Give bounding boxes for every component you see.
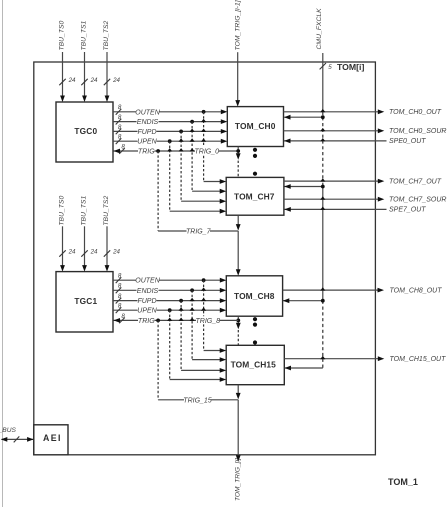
svg-text:8: 8 [118, 273, 122, 280]
node TRIG drop junction (TGC1) [156, 319, 160, 323]
wire CMU_FXCLK branch into TOM_CH7 [284, 184, 323, 189]
hop CMU_FXCLK over TOM_CH7_SOUR [320, 196, 325, 199]
bus slash 8 on UPEN (TGC1) [116, 303, 122, 314]
wire TBU_TS2 to TGC0 [105, 52, 110, 102]
hop ENDIS drop over FUPD [190, 129, 195, 132]
svg-text:8: 8 [118, 104, 122, 111]
ellipsis channels CH9..CH14 [253, 317, 257, 345]
bus slash 24 on TBU_TS1 (TGC0) [81, 77, 98, 85]
hop UPEN drop over TRIG [167, 148, 172, 151]
wire UPEN drop to TOM_CH7 [170, 141, 227, 213]
svg-text:TGC1: TGC1 [74, 296, 97, 306]
bus slash 8 on FUPD (TGC1) [116, 293, 122, 304]
block TOM_CH0 [227, 107, 283, 147]
wire FUPD (TGC0 to TOM_CH0) [113, 129, 227, 134]
label UPEN (TGC1) [137, 306, 157, 315]
wire FUPD (TGC1 to TOM_CH8) [113, 298, 226, 303]
hop OUTEN drop over FUPD [201, 129, 206, 132]
wire TOM_CH7_SOUR [284, 197, 384, 202]
label TRIG (TGC0) [138, 147, 155, 156]
svg-text:24: 24 [112, 77, 120, 84]
svg-text:TOM[i]: TOM[i] [337, 62, 364, 72]
svg-text:5: 5 [328, 64, 332, 71]
page edge line [2, 0, 4, 507]
svg-text:TOM_CH0_OUT: TOM_CH0_OUT [389, 109, 442, 116]
wire TRIG_7 return (TOM_CH7 trig down to TGC0 TRIG) [158, 151, 238, 231]
svg-text:8: 8 [118, 303, 122, 310]
wire FUPD drop to TOM_CH15 [181, 301, 226, 373]
wire ENDIS drop to TOM_CH7 [192, 122, 226, 194]
wire TOM_CH15_OUT [284, 356, 384, 361]
svg-text:TBU_TS1: TBU_TS1 [80, 196, 87, 226]
bus slash 24 on TBU_TS2 (TGC1) [104, 249, 121, 257]
svg-text:8: 8 [118, 124, 122, 131]
svg-text:TOM_CH8: TOM_CH8 [234, 291, 275, 301]
wire OUTEN drop to TOM_CH7 [204, 112, 227, 184]
wire trig chain TOM_CH8 bottom to TOM_CH15 [236, 316, 241, 345]
node CMU_FXCLK junction at TOM_CH7 [321, 185, 325, 189]
svg-text:TRIG_0: TRIG_0 [195, 149, 220, 156]
label TRIG_8 [196, 316, 221, 325]
wire CMU_FXCLK branch into TOM_CH0 [284, 115, 323, 120]
svg-text:ENDIS: ENDIS [137, 288, 159, 295]
node OUTEN drop junction (TGC1) [202, 278, 206, 282]
bus slash 5 on CMU_FXCLK [320, 63, 333, 71]
svg-text:ENDIS: ENDIS [137, 119, 159, 126]
bus slash 8 on TRIG (TGC1) [119, 313, 125, 324]
hop OUTEN drop over ENDIS (TGC1) [201, 287, 206, 290]
ellipsis channels CH1..CH6 [253, 148, 257, 176]
bus slash 8 on TRIG (TGC0) [119, 143, 125, 154]
bus slash 8 on OUTEN (TGC1) [116, 273, 122, 284]
wire TBU_TS1 to TGC1 [82, 226, 87, 271]
svg-text:TOM_TRIG_[i-1]: TOM_TRIG_[i-1] [235, 0, 242, 51]
hop OUTEN drop over FUPD (TGC1) [201, 298, 206, 301]
svg-text:8: 8 [118, 114, 122, 121]
svg-text:TOM_CH7_OUT: TOM_CH7_OUT [389, 178, 442, 185]
svg-text:TRIG: TRIG [138, 149, 155, 156]
svg-text:FUPD: FUPD [137, 129, 156, 136]
svg-text:TOM_CH7: TOM_CH7 [234, 191, 275, 201]
svg-text:24: 24 [90, 77, 98, 84]
svg-text:24: 24 [68, 249, 76, 256]
bus slash 24 on TBU_TS1 (TGC1) [81, 249, 98, 257]
wire TBU_TS0 to TGC0 [60, 52, 65, 102]
svg-text:8: 8 [118, 134, 122, 141]
wire trig chain TOM_CH0 bottom to TOM_CH7 [236, 147, 241, 178]
wire FUPD drop to TOM_CH7 [181, 131, 226, 203]
hop ENDIS drop over FUPD (TGC1) [190, 298, 195, 301]
wire TBU_TS1 to TGC0 [82, 52, 87, 102]
node OUTEN drop junction (TGC0) [202, 110, 206, 114]
svg-text:24: 24 [68, 77, 76, 84]
block TOM_CH15 [226, 345, 284, 384]
wire OUTEN (TGC0 to TOM_CH0) [113, 109, 227, 114]
hop CMU_FXCLK over SPE7_OUT [320, 207, 325, 210]
hop UPEN drop over TRIG (TGC1) [167, 318, 172, 321]
label FUPD (TGC1) [137, 296, 156, 305]
svg-text:8: 8 [118, 283, 122, 290]
node TRIG_0 junction [236, 149, 240, 153]
label TRIG_0 [195, 147, 220, 156]
svg-text:TRIG_7: TRIG_7 [186, 229, 212, 236]
wire trig chain TOM_CH7 bottom to TOM_CH8 [236, 215, 241, 276]
svg-text:UPEN: UPEN [137, 308, 157, 315]
wire TOM_CH0_SOUR [284, 128, 385, 133]
label TRIG (TGC1) [138, 316, 155, 325]
svg-text:TBU_TS0: TBU_TS0 [58, 196, 65, 226]
node TRIG drop junction (TGC0) [156, 149, 160, 153]
wire TRIG (TGC0, arrow into TGC0, runs to trig chain node) [114, 149, 239, 154]
hop OUTEN drop over UPEN [201, 138, 206, 141]
svg-text:FUPD: FUPD [137, 298, 156, 305]
hop FUPD drop over TRIG [179, 148, 184, 151]
hop CMU_FXCLK over SPE0_OUT [320, 138, 325, 141]
hop ENDIS drop over UPEN (TGC1) [190, 307, 195, 310]
block TOM_CH8 [226, 276, 282, 316]
svg-text:TOM_CH15: TOM_CH15 [231, 359, 277, 369]
node UPEN drop junction (TGC0) [168, 139, 172, 143]
node FUPD drop junction (TGC1) [179, 299, 183, 303]
block TOM_CH7 [226, 177, 284, 215]
wire OUTEN (TGC1 to TOM_CH8) [113, 278, 226, 283]
label UPEN (TGC0) [137, 137, 157, 146]
bus slash 24 on TBU_TS0 (TGC1) [59, 249, 76, 257]
bus slash 8 on OUTEN (TGC0) [116, 104, 122, 115]
svg-text:TOM_TRIG_[i]: TOM_TRIG_[i] [234, 458, 241, 501]
svg-text:TOM_1: TOM_1 [388, 477, 418, 487]
block TGC0 [56, 102, 113, 162]
wire UPEN drop to TOM_CH15 [170, 310, 227, 382]
node ENDIS drop junction (TGC0) [190, 120, 194, 124]
svg-text:TBU_TS2: TBU_TS2 [103, 196, 110, 226]
svg-text:TRIG_8: TRIG_8 [196, 318, 221, 325]
node FUPD drop junction (TGC0) [179, 130, 183, 134]
block AEI [34, 425, 68, 455]
svg-text:TOM_CH0_SOUR: TOM_CH0_SOUR [389, 128, 446, 135]
node CMU_FXCLK junction at TOM_CH8 [321, 299, 325, 303]
svg-text:UPEN: UPEN [137, 139, 157, 146]
bus slash 8 on UPEN (TGC0) [116, 134, 122, 145]
outer module box TOM[i] [34, 62, 376, 455]
block TGC1 [56, 272, 113, 332]
hop ENDIS drop over TRIG [190, 148, 195, 151]
label OUTEN (TGC0) [135, 108, 160, 117]
svg-text:TOM_CH0: TOM_CH0 [235, 121, 276, 131]
hop FUPD drop over UPEN [179, 138, 184, 141]
bus slash 24 on TBU_TS0 (TGC0) [59, 77, 76, 85]
hop ENDIS drop over UPEN [190, 138, 195, 141]
wire ENDIS (TGC1 to TOM_CH8) [113, 288, 226, 293]
bus slash 24 on TBU_TS2 (TGC0) [104, 77, 121, 85]
svg-text:SPE7_OUT: SPE7_OUT [389, 207, 426, 214]
svg-text:OUTEN: OUTEN [135, 109, 160, 116]
svg-text:TRIG: TRIG [138, 318, 155, 325]
wire TBU_TS2 to TGC1 [105, 226, 110, 271]
wire TOM_TRIG_[i] output (TOM_CH15 bottom, out of module) [236, 385, 241, 462]
wire TRIG_15 return (TOM_CH15 trig down to TGC1 TRIG) [158, 320, 238, 399]
hop OUTEN drop over ENDIS [201, 119, 206, 122]
wire CMU_FXCLK branch into TOM_CH15 [285, 366, 323, 371]
wire UPEN (TGC1 to TOM_CH8) [113, 308, 226, 313]
wire TBU_TS0 to TGC1 [60, 226, 65, 271]
svg-text:TRIG_15: TRIG_15 [183, 397, 212, 404]
hop FUPD drop over UPEN (TGC1) [179, 307, 184, 310]
svg-text:TOM_CH15_OUT: TOM_CH15_OUT [390, 356, 447, 363]
wire CMU_FXCLK vertical [322, 53, 324, 368]
hop CMU_FXCLK over TOM_CH7_OUT [320, 178, 325, 181]
svg-text:TOM_CH7_SOUR: TOM_CH7_SOUR [389, 197, 446, 204]
svg-text:8: 8 [121, 143, 125, 150]
svg-text:AEI_BUS: AEI_BUS [0, 427, 16, 434]
label OUTEN (TGC1) [135, 276, 160, 285]
label TRIG_7 [186, 227, 212, 236]
label FUPD (TGC0) [137, 127, 156, 136]
node CMU_FXCLK junction at TOM_CH0 [321, 115, 325, 119]
wire TOM_CH0_OUT [284, 109, 385, 114]
bus slash 8 on ENDIS (TGC0) [116, 114, 122, 125]
svg-text:TOM_CH8_OUT: TOM_CH8_OUT [390, 287, 443, 294]
wire TOM_TRIG_[i-1] input [235, 52, 240, 106]
bus slash 8 on FUPD (TGC0) [116, 124, 122, 135]
hop ENDIS drop over TRIG (TGC1) [190, 318, 195, 321]
wire TRIG (TGC1, arrow into TGC1, runs to trig chain node) [114, 318, 239, 323]
hop OUTEN drop over UPEN (TGC1) [201, 307, 206, 310]
hop CMU_FXCLK over TOM_CH8_OUT [320, 287, 325, 290]
svg-text:8: 8 [118, 293, 122, 300]
label TRIG_15 [183, 396, 212, 405]
svg-text:24: 24 [90, 249, 98, 256]
svg-text:8: 8 [121, 313, 125, 320]
svg-text:OUTEN: OUTEN [135, 278, 160, 285]
svg-text:TBU_TS0: TBU_TS0 [58, 20, 65, 50]
svg-text:SPE0_OUT: SPE0_OUT [389, 138, 426, 145]
wire SPE7_OUT into TOM_CH7 [284, 207, 386, 212]
hop FUPD drop over TRIG (TGC1) [179, 318, 184, 321]
node ENDIS drop junction (TGC1) [190, 288, 194, 292]
svg-text:24: 24 [112, 249, 120, 256]
wire TOM_CH7_OUT [284, 179, 384, 184]
wire OUTEN drop to TOM_CH15 [204, 280, 227, 353]
wire ENDIS (TGC0 to TOM_CH0) [113, 119, 227, 124]
wire TOM_CH8_OUT [283, 288, 384, 293]
wire SPE0_OUT into TOM_CH0 [284, 139, 387, 144]
wire CMU_FXCLK branch into TOM_CH8 [283, 298, 323, 303]
bus slash 8 on ENDIS (TGC1) [116, 283, 122, 294]
svg-text:TBU_TS1: TBU_TS1 [80, 20, 87, 50]
label ENDIS (TGC0) [137, 117, 159, 126]
svg-text:AEI: AEI [43, 433, 62, 443]
wire UPEN (TGC0 to TOM_CH0) [113, 139, 227, 144]
hop CMU_FXCLK over TOM_CH0_OUT [320, 109, 325, 112]
svg-text:TGC0: TGC0 [74, 126, 97, 136]
label ENDIS (TGC1) [137, 286, 159, 295]
node TRIG_8 junction [236, 319, 240, 323]
wire AEI_BUS double arrow [1, 436, 34, 442]
hop CMU_FXCLK over TOM_CH15_OUT [320, 356, 325, 359]
hop CMU_FXCLK over TOM_CH0_SOUR [320, 128, 325, 131]
wire ENDIS drop to TOM_CH15 [192, 290, 226, 362]
svg-text:TBU_TS2: TBU_TS2 [103, 20, 110, 50]
svg-text:CMU_FXCLK: CMU_FXCLK [316, 8, 323, 50]
node UPEN drop junction (TGC1) [168, 308, 172, 312]
